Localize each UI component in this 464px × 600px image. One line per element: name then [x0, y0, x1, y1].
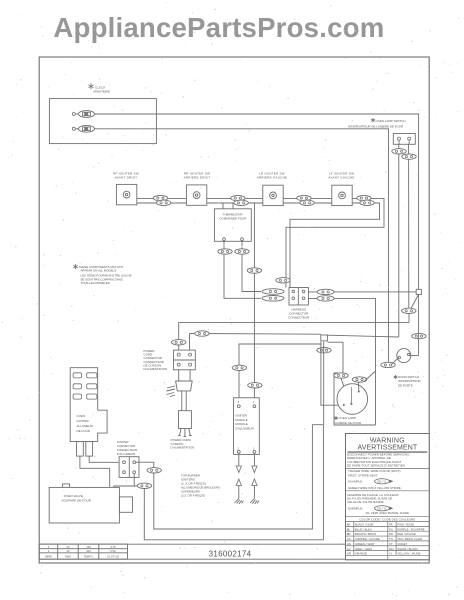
- wire lamp twin line B: [323, 342, 325, 425]
- warning tracer symbol 2: [375, 506, 394, 511]
- svg-text:DE FOUR: DE FOUR: [77, 429, 91, 433]
- wire igniter row upper: [137, 198, 384, 287]
- svg-text:3.75: 3.75: [110, 545, 116, 549]
- harness connector label: [288, 308, 310, 320]
- svg-text:125: 125: [86, 545, 91, 549]
- connector on L2a lower: [248, 383, 262, 388]
- svg-text:INTERRUPTEUR DE LUMIERE DE FOU: INTERRUPTEUR DE LUMIERE DE FOUR: [348, 125, 403, 129]
- door switch label: [394, 375, 421, 387]
- svg-text:MODULE: MODULE: [235, 418, 247, 422]
- clock label: [88, 83, 110, 93]
- wire igniter row lower: [137, 203, 380, 288]
- oven igniter body: [70, 368, 107, 442]
- warning tracer rule top: [346, 468, 430, 470]
- oven lamp switch label: [348, 118, 406, 129]
- wire lamp conn B: [359, 371, 376, 392]
- svg-text:MODULE: MODULE: [235, 422, 247, 426]
- svg-text:ARRIERE GAUCHE: ARRIERE GAUCHE: [257, 176, 288, 180]
- svg-text:EXAMPLE:: EXAMPLE:: [348, 480, 363, 484]
- burner igniter electrode B: [250, 479, 259, 504]
- svg-text:BLACK / NOIR: BLACK / NOIR: [355, 523, 374, 527]
- wire door right rail: [418, 295, 420, 356]
- wire thermostat stub 2: [232, 203, 234, 209]
- svg-text:OVEN LAMP SWITCH: OVEN LAMP SWITCH: [376, 119, 406, 123]
- wire door sw approach: [392, 359, 398, 365]
- svg-text:ARRIERE DROIT: ARRIERE DROIT: [184, 176, 211, 180]
- svg-text:VIOLET: VIOLET: [397, 542, 407, 546]
- top burner igniters label: [181, 473, 220, 497]
- bottom band rule upper: [39, 543, 345, 545]
- igniter switch RR: [186, 185, 206, 205]
- wire harness right lower to lamp frame: [308, 298, 375, 425]
- svg-text:AVANT GAUCHE: AVANT GAUCHE: [328, 176, 354, 180]
- igniter switch RF: [116, 184, 136, 204]
- connector harness left upper: [262, 289, 284, 295]
- igniter switch RR label: [184, 172, 211, 180]
- warning box frame: [346, 434, 430, 560]
- warning tracer text: [348, 469, 401, 483]
- power cord connector box: [174, 350, 196, 370]
- svg-text:ALLUMEUR: ALLUMEUR: [77, 424, 94, 428]
- junction lamp: [321, 335, 328, 341]
- connector harness left lower: [262, 296, 284, 302]
- svg-text:AVERTISSEMENT: AVERTISSEMENT: [357, 444, 417, 451]
- svg-text:MINUTERIE: MINUTERIE: [94, 90, 111, 94]
- oven igniter label: [77, 414, 94, 433]
- svg-text:WIRE: WIRE: [45, 555, 52, 559]
- svg-text:TAN / BRUN CLAIR: TAN / BRUN CLAIR: [397, 537, 422, 541]
- diagram border frame: [39, 57, 429, 563]
- wire door switch right: [410, 355, 419, 357]
- svg-text:LUMIERE DE FOUR: LUMIERE DE FOUR: [334, 421, 363, 425]
- svg-text:WH: WH: [389, 547, 394, 551]
- wire lamp twin line A: [321, 342, 344, 405]
- svg-text:CELLE DE TOUTE BANDE.: CELLE DE TOUTE BANDE.: [347, 500, 385, 504]
- power cord plug: [176, 370, 193, 391]
- connector run1: [147, 468, 161, 473]
- wire harness right upper to junction: [308, 291, 416, 293]
- wire thermostat T1 to harness: [224, 241, 261, 299]
- warning color code table: [346, 516, 430, 560]
- svg-text:BROWN / BRUN: BROWN / BRUN: [355, 532, 376, 536]
- svg-text:PK: PK: [389, 523, 393, 527]
- svg-text:GN / YL: GN / YL: [377, 480, 387, 484]
- svg-text:COLOR CODE / CODE DES COU: COLOR CODE / CODE DES COULEURS: [359, 517, 415, 521]
- svg-text:D'ALIMENTATION: D'ALIMENTATION: [144, 367, 168, 371]
- warning tracer text 2: [348, 486, 402, 490]
- harness connector box: [289, 288, 308, 306]
- note asterisk text: [73, 264, 131, 285]
- warning para 1: [347, 453, 410, 468]
- svg-text:TN: TN: [389, 537, 393, 541]
- wire run2 to right: [134, 425, 323, 540]
- connector below junction: [402, 308, 416, 313]
- svg-text:AVANT DROIT: AVANT DROIT: [115, 176, 137, 180]
- oven lamp switch: [393, 134, 415, 145]
- wire power connector second: [189, 334, 191, 351]
- oven lamp circle: [337, 384, 368, 415]
- module arrow 2: [236, 466, 241, 473]
- svg-text:OVEN: OVEN: [77, 414, 86, 418]
- junction right rail: [416, 289, 421, 294]
- connector harness right upper: [317, 289, 334, 294]
- svg-text:AWG: AWG: [65, 555, 71, 559]
- igniter connector label: [117, 440, 137, 456]
- svg-text:UL STYLE: UL STYLE: [107, 555, 119, 559]
- oven lamp enclosure: [334, 373, 376, 425]
- svg-text:PINK / ROSE: PINK / ROSE: [397, 523, 414, 527]
- wire size table: [39, 544, 127, 559]
- wire igniter lead left to valve: [80, 456, 110, 487]
- svg-text:OVEN LAMP: OVEN LAMP: [339, 416, 357, 420]
- wire valve T2: [114, 486, 134, 487]
- svg-text:(2,3, OR 4 REQ'D): (2,3, OR 4 REQ'D): [181, 494, 205, 498]
- wire junction2 feed: [190, 333, 321, 336]
- wire junction diagonal: [411, 295, 419, 309]
- connector harness drop: [276, 278, 290, 283]
- wire clock L1 to right rail: [95, 114, 419, 290]
- clock fuse F1: [72, 111, 94, 118]
- wire lamp conn A: [341, 378, 344, 386]
- oven valve notch: [63, 484, 70, 488]
- wire module out 2: [238, 453, 240, 466]
- warning tracer symbol 1: [375, 479, 394, 484]
- connector RR-LR: [231, 195, 249, 205]
- svg-text:FIRST, STRIPE NEXT.: FIRST, STRIPE NEXT.: [348, 473, 378, 477]
- connector right rail link: [412, 333, 426, 338]
- svg-text:GREY / GRIS: GREY / GRIS: [355, 547, 372, 551]
- igniter switch LR: [263, 185, 283, 205]
- wire lamp switch right leg: [408, 144, 410, 308]
- connector lamp A: [334, 373, 348, 378]
- connector thermostat T2: [235, 249, 249, 254]
- module arrow 1: [252, 466, 257, 473]
- wire door rail connector: [381, 362, 395, 367]
- warning tracer rule bottom: [346, 490, 430, 492]
- power cord prongs: [178, 429, 191, 437]
- svg-text:COMMANDE FOUR: COMMANDE FOUR: [219, 217, 247, 221]
- connector lamp B: [352, 377, 366, 382]
- wire run1 to right: [136, 425, 324, 529]
- door switch circle: [397, 349, 411, 363]
- igniter switch LF: [332, 185, 352, 205]
- svg-text:PU: PU: [389, 527, 393, 531]
- connector module feed: [232, 365, 246, 370]
- wire oval drop: [408, 314, 410, 323]
- svg-text:TEMP C: TEMP C: [84, 555, 94, 559]
- svg-text:EXEMPLE:: EXEMPLE:: [348, 507, 363, 511]
- svg-text:D'ALLUMEUR: D'ALLUMEUR: [117, 452, 135, 456]
- svg-text:YL: YL: [389, 552, 393, 556]
- oven valve tab: [119, 497, 132, 512]
- svg-text:COPPER / CUIVRE: COPPER / CUIVRE: [355, 537, 380, 541]
- svg-text:BLUE / BLEU: BLUE / BLEU: [355, 527, 372, 531]
- wire lamp switch left leg: [398, 144, 400, 337]
- part number: [209, 549, 252, 558]
- svg-text:YELLOW / JAUNE: YELLOW / JAUNE: [397, 552, 420, 556]
- clock fuse F2: [72, 125, 94, 132]
- igniter switch LF label: [328, 172, 354, 180]
- svg-text:WHITE / BLANC: WHITE / BLANC: [397, 547, 418, 551]
- burner igniter electrode A: [235, 479, 244, 504]
- svg-text:TOUS LES MODELES.: TOUS LES MODELES.: [81, 281, 111, 285]
- svg-text:GY: GY: [347, 547, 351, 551]
- wire net L2a to module terminal 3: [253, 203, 255, 398]
- thermostat box: [214, 209, 251, 242]
- svg-text:FIL VERT AVEC BANDE JAUNE: FIL VERT AVEC BANDE JAUNE: [366, 511, 409, 515]
- svg-text:RD: RD: [389, 532, 393, 536]
- svg-text:10A: 10A: [86, 549, 91, 553]
- spark module box: [234, 398, 260, 455]
- connector on L2a upper: [247, 268, 261, 273]
- svg-text:RED / ROUGE: RED / ROUGE: [397, 532, 416, 536]
- warning legende line 2: [366, 511, 409, 515]
- wire lamp neutral lower: [179, 323, 409, 351]
- svg-text:2.5A: 2.5A: [110, 549, 116, 553]
- connector RF-RR: [153, 195, 171, 205]
- connector on pc feed: [195, 331, 209, 336]
- svg-text:DE PORTE: DE PORTE: [398, 383, 413, 387]
- svg-text:IGNITER: IGNITER: [77, 419, 90, 423]
- svg-text:PURPLE / POURPRE: PURPLE / POURPRE: [397, 527, 424, 531]
- svg-text:OVEN VALVE: OVEN VALVE: [64, 494, 83, 498]
- svg-text:CONNECTEUR: CONNECTEUR: [288, 316, 310, 320]
- svg-text:SOUPAPE DE FOUR: SOUPAPE DE FOUR: [62, 499, 92, 503]
- warning legende: [347, 493, 399, 511]
- power cord cable: [179, 391, 192, 429]
- svg-text:D'ALLUMEUR: D'ALLUMEUR: [235, 427, 253, 431]
- svg-text:D'ALIMENTATION: D'ALIMENTATION: [171, 446, 195, 450]
- wire module out 1: [253, 453, 255, 466]
- wire thermostat T2 to harness: [242, 241, 261, 292]
- warning title: [348, 438, 428, 453]
- wire clock L2 to door switch rail: [95, 129, 389, 362]
- connector LR-LF: [297, 195, 315, 205]
- oven lamp label: [334, 416, 363, 425]
- svg-text:BR: BR: [347, 532, 351, 536]
- svg-text:APPEAR ON ALL MODELS: APPEAR ON ALL MODELS: [81, 269, 117, 273]
- wire LS1 to lamp junction: [327, 335, 398, 337]
- svg-text:GN: GN: [347, 542, 351, 546]
- svg-text:IGNITER: IGNITER: [235, 413, 247, 417]
- igniter switch RF label: [113, 172, 139, 180]
- svg-text:BL: BL: [347, 527, 351, 531]
- power cord label: [171, 438, 195, 450]
- power cord strain relief: [167, 386, 176, 397]
- svg-text:OR: OR: [347, 552, 351, 556]
- svg-text:AppliancePartsPros.com: AppliancePartsPros.com: [53, 12, 384, 43]
- oven igniter stems: [77, 442, 93, 457]
- connector lamp switch left: [392, 149, 406, 154]
- connector thermostat T1: [218, 249, 232, 254]
- connector pc riser: [172, 340, 186, 345]
- clock box: [49, 99, 156, 144]
- wire junction lamp right link: [327, 342, 343, 373]
- igniter connector box: [119, 457, 139, 478]
- wire module feed from lamp line: [239, 344, 322, 398]
- svg-text:ORANGE: ORANGE: [355, 552, 367, 556]
- connector below junction lamp: [317, 348, 331, 353]
- svg-text:BK: BK: [347, 523, 351, 527]
- power cord connector label: [144, 349, 168, 371]
- connector lamp switch right: [402, 154, 416, 159]
- wire igniter lead right to connector: [89, 456, 119, 462]
- wire thermostat stub 1: [222, 203, 224, 209]
- igniter switch LR label: [257, 172, 288, 180]
- connector LF-right: [357, 195, 375, 205]
- watermark AppliancePartsPros.com: [53, 12, 384, 43]
- svg-text:DE FAIRE TOUT SERVICE D' E: DE FAIRE TOUT SERVICE D' ENTRETIEN: [347, 464, 405, 468]
- svg-text:316002174: 316002174: [209, 549, 252, 558]
- oven valve box: [49, 487, 119, 523]
- connector harness right lower: [317, 296, 334, 301]
- bottom band rule lower: [39, 558, 345, 560]
- oven igniter slots: [73, 373, 97, 399]
- svg-text:GREEN WIRE WITH YELLOW STR: GREEN WIRE WITH YELLOW STRIPE.: [348, 486, 402, 490]
- svg-text:VT: VT: [389, 542, 393, 546]
- connector run2: [137, 483, 151, 488]
